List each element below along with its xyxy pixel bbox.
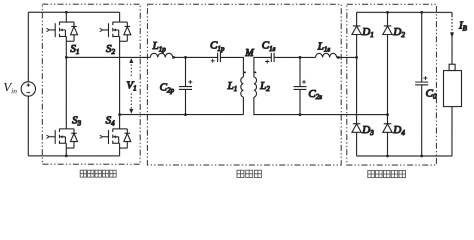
- wire C2p branch bottom: [184, 90, 186, 115]
- polarity dot L2: [254, 71, 256, 73]
- wire rectifier right leg: [386, 12, 388, 156]
- svg-text:Vin: Vin: [3, 79, 17, 95]
- node bridge left midpoint: [65, 56, 68, 59]
- svg-text:C2s: C2s: [308, 88, 322, 101]
- wire rectifier bottom rail: [357, 155, 452, 157]
- svg-text:L1p: L1p: [152, 40, 167, 53]
- arrow IB (battery current, dashed): [451, 16, 453, 33]
- svg-text:IB: IB: [458, 19, 468, 32]
- diode D2: [383, 26, 392, 35]
- wire C1s to L1s: [274, 56, 316, 58]
- svg-text:S4: S4: [106, 114, 116, 127]
- svg-text:D3: D3: [361, 124, 374, 137]
- diode D3: [352, 124, 361, 133]
- wire rectifier left leg: [356, 12, 358, 156]
- svg-text:C1p: C1p: [210, 40, 225, 53]
- diode D4: [383, 124, 392, 133]
- capacitor C2s: [294, 87, 307, 90]
- capacitor C1s: [271, 53, 274, 62]
- svg-text:C1s: C1s: [262, 40, 276, 53]
- wire top rail inverter: [28, 11, 119, 13]
- node C2s tap top: [299, 56, 302, 59]
- polarity + of C1p: [211, 59, 215, 63]
- wire bridge output top to L1p: [66, 56, 150, 58]
- caption 全桥逆变器: [80, 170, 116, 177]
- svg-text:C0: C0: [426, 87, 437, 100]
- svg-text:D2: D2: [392, 26, 405, 39]
- diode D1: [352, 26, 361, 35]
- svg-text:L1s: L1s: [317, 40, 331, 53]
- capacitor C0: [415, 82, 428, 85]
- wire C2s branch bottom: [299, 90, 301, 115]
- wire right leg mid: [119, 36, 121, 128]
- wire C1p to L1: [220, 57, 243, 77]
- wire Vin bottom to rail: [27, 96, 29, 156]
- wire secondary bottom rail: [254, 97, 388, 115]
- svg-text:S3: S3: [72, 114, 82, 127]
- winding L1 (primary): [241, 77, 244, 97]
- polarity + of C2s: [302, 80, 306, 84]
- svg-text:S1: S1: [70, 43, 79, 56]
- wire C2p branch top: [185, 57, 187, 86]
- node rectifier left leg input: [355, 56, 358, 59]
- box 全桥整流器 (full-bridge rectifier): [347, 4, 437, 165]
- wire right leg S4 source: [119, 143, 121, 156]
- wire right leg S2 drain: [119, 12, 121, 22]
- winding L2 (secondary): [254, 77, 257, 97]
- svg-text:S2: S2: [106, 43, 116, 56]
- wire rectifier top rail: [357, 11, 452, 13]
- wire bottom rail inverter: [28, 155, 119, 157]
- polarity dot L1: [244, 71, 246, 73]
- node rectifier right leg input: [386, 113, 389, 116]
- svg-text:L2: L2: [259, 80, 270, 93]
- svg-text:L1: L1: [227, 80, 238, 93]
- polarity + of C0: [423, 76, 427, 80]
- caption 谐振槽: [237, 170, 261, 177]
- battery load: [449, 64, 455, 70]
- caption 全桥整流器: [368, 170, 406, 177]
- transistor S1: [46, 22, 77, 42]
- svg-text:D4: D4: [392, 124, 405, 137]
- node bottom rail / S3 leg: [65, 154, 68, 157]
- svg-text:C2p: C2p: [160, 81, 175, 94]
- wire battery bottom: [451, 107, 453, 156]
- wire load branch top: [451, 12, 453, 16]
- node C0 bottom: [420, 155, 423, 158]
- wire bridge output bottom rail: [120, 114, 244, 116]
- transistor S3: [46, 129, 77, 149]
- node C2p tap top: [184, 56, 187, 59]
- arrow V1 (bridge output voltage, dotted): [130, 61, 132, 111]
- wire left leg S3 source: [65, 143, 67, 156]
- node D2 top: [386, 11, 389, 14]
- svg-text:M: M: [244, 48, 254, 59]
- node C2p tap bottom: [184, 113, 187, 116]
- transistor S4: [100, 129, 131, 149]
- inductor L1s: [316, 53, 337, 57]
- capacitor C2p: [179, 87, 192, 90]
- wire C0 branch top: [421, 12, 423, 82]
- inductor L1p: [150, 53, 172, 57]
- svg-text:D1: D1: [361, 26, 373, 39]
- wire L1s to rectifier with current arrowhead: [337, 56, 357, 58]
- wire L2 top to C1s: [254, 57, 271, 77]
- node C0 top: [420, 11, 423, 14]
- svg-text:V1: V1: [126, 79, 136, 92]
- node D4 bottom: [386, 155, 389, 158]
- wire left leg mid: [65, 36, 67, 128]
- transistor S2: [100, 22, 131, 42]
- wire arrow to battery: [451, 35, 453, 64]
- polarity + of C1s: [265, 60, 269, 64]
- node top rail / S1 leg: [65, 11, 68, 14]
- wire Vin top to rail: [27, 12, 29, 81]
- polarity + of C2p: [188, 80, 192, 84]
- wire L1 bottom: [242, 97, 244, 115]
- wire L1p to C1p with current arrowhead: [173, 56, 218, 58]
- source Vin: [21, 82, 35, 96]
- wire left leg S1 drain: [65, 12, 67, 22]
- wire C0 branch bottom: [421, 85, 423, 156]
- box 谐振槽 (resonant tank): [147, 4, 341, 165]
- node bridge right midpoint: [118, 113, 121, 116]
- box 全桥逆变器 (full-bridge inverter): [42, 4, 140, 164]
- capacitor C1p: [218, 53, 221, 62]
- node C2s tap bottom: [299, 113, 302, 116]
- wire C2s branch top: [299, 57, 301, 86]
